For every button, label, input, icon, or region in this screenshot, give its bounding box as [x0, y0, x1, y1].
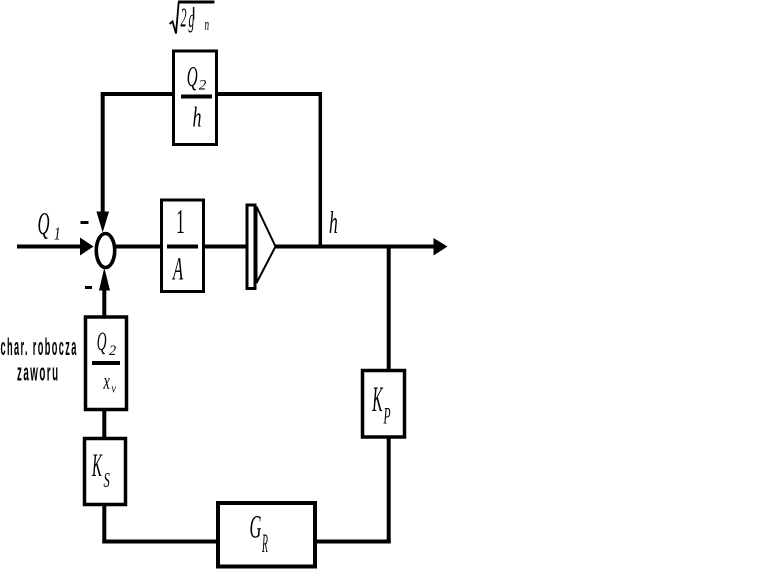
block GR	[218, 503, 315, 567]
svg-text:P: P	[383, 403, 391, 428]
svg-text:h: h	[329, 204, 338, 240]
svg-text:K: K	[91, 446, 103, 483]
wire feedback top: left segment	[101, 92, 174, 96]
integrator symbol	[247, 205, 276, 289]
wire h down to KP	[387, 247, 391, 371]
svg-text:2: 2	[109, 343, 116, 359]
svg-text:n: n	[205, 15, 210, 34]
arrowhead bottom into summing junction	[99, 268, 110, 291]
minus sign bottom input	[85, 286, 92, 289]
wire vertical down into summing junction	[101, 94, 105, 214]
svg-text:1: 1	[54, 225, 61, 244]
wire bottom right horizontal to GR	[317, 540, 391, 544]
label Q1	[38, 205, 61, 244]
svg-text:K: K	[372, 379, 384, 419]
wire input from left	[17, 245, 81, 249]
svg-text:zaworu: zaworu	[17, 360, 60, 386]
svg-text:x: x	[103, 368, 110, 395]
block KP	[363, 371, 405, 438]
wire vertical right of top feedback	[319, 94, 323, 247]
svg-text:1: 1	[176, 201, 185, 240]
wire feedback top: block right to output junction	[218, 92, 322, 96]
svg-text:A: A	[172, 250, 184, 287]
block 1/A	[162, 200, 204, 292]
svg-text:Q: Q	[187, 59, 198, 92]
svg-text:Q: Q	[38, 205, 50, 241]
wire vertical up to KS	[102, 506, 106, 544]
block KS	[85, 439, 126, 505]
wire KP down	[387, 437, 391, 544]
wire 1/A to integrator	[204, 245, 248, 249]
summing junction	[96, 234, 114, 268]
svg-text:2: 2	[181, 2, 187, 33]
wire bottom left horizontal from GR	[102, 540, 218, 544]
arrowhead input into summing junction	[80, 238, 94, 256]
wire summing junction to 1/A	[115, 245, 162, 249]
label sqrt(2g)|n	[170, 2, 215, 34]
arrowhead output	[434, 238, 448, 256]
svg-text:Q: Q	[97, 329, 107, 357]
svg-text:S: S	[104, 469, 111, 492]
block Q2/xv	[86, 317, 127, 410]
svg-text:2: 2	[199, 78, 207, 94]
svg-text:h: h	[193, 102, 202, 133]
wire output h	[276, 245, 435, 249]
svg-text:G: G	[250, 508, 262, 545]
svg-text:char. robocza: char. robocza	[1, 334, 78, 360]
block Q2/h	[174, 51, 217, 145]
arrowhead top into summing junction	[96, 212, 109, 233]
label char. robocza zaworu	[1, 334, 78, 386]
minus sign top input	[81, 221, 89, 224]
wire Q2/xv up into summing junction	[102, 287, 106, 317]
svg-text:R: R	[262, 531, 268, 559]
wire KS up to Q2/xv	[102, 411, 106, 439]
